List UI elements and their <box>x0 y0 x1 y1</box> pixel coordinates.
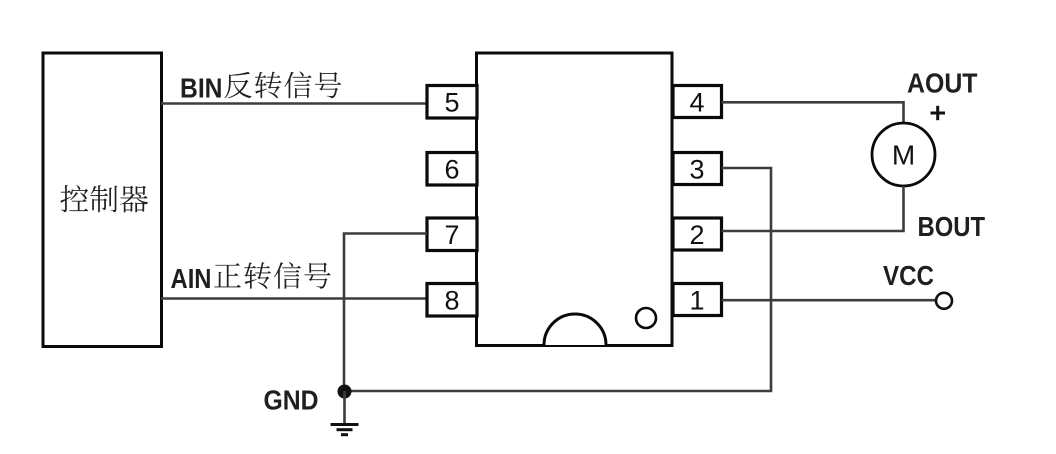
pin 4 <box>673 86 722 118</box>
svg-text:1: 1 <box>689 286 704 316</box>
pin 1 <box>673 284 722 316</box>
pin 8 <box>427 284 477 317</box>
wire pin 3 to GND rail <box>345 168 772 391</box>
svg-text:3: 3 <box>689 155 704 185</box>
pin 2 <box>673 218 722 250</box>
svg-text:7: 7 <box>444 220 459 250</box>
IC notch (orientation mark) <box>544 314 606 345</box>
svg-text:M: M <box>892 140 915 171</box>
pin 5 <box>427 86 477 119</box>
svg-text:AOUT: AOUT <box>907 68 978 99</box>
controller box <box>43 53 162 347</box>
svg-text:2: 2 <box>689 220 704 250</box>
label 控制器 <box>60 185 148 212</box>
IC U1 body <box>477 53 673 346</box>
polarity + <box>931 106 946 120</box>
pin 6 <box>427 153 477 186</box>
motor M1 <box>872 123 935 186</box>
svg-text:AIN: AIN <box>171 263 212 294</box>
pin 7 <box>427 218 477 251</box>
wire pin 4 to motor AOUT <box>722 102 904 123</box>
junction dot GND node <box>338 385 352 399</box>
svg-text:5: 5 <box>444 88 459 118</box>
label AIN正转信号 <box>171 262 331 294</box>
wire AIN: controller to pin 8 <box>161 297 427 300</box>
svg-text:BIN: BIN <box>180 73 223 104</box>
svg-text:8: 8 <box>444 286 459 316</box>
pin 3 <box>673 153 722 185</box>
wire pin 1 to VCC terminal <box>722 299 936 302</box>
wire motor BOUT to pin 2 <box>722 186 904 231</box>
svg-text:4: 4 <box>689 88 704 118</box>
svg-text:VCC: VCC <box>883 260 934 291</box>
ground <box>331 391 359 435</box>
svg-text:BOUT: BOUT <box>918 211 986 242</box>
wire BIN: controller to pin 5 <box>161 102 427 105</box>
pin 1 indicator dot <box>636 308 656 328</box>
label BIN反转信号 <box>180 71 341 103</box>
wire pin 7 to GND node <box>344 234 427 392</box>
VCC terminal <box>936 293 952 309</box>
svg-text:GND: GND <box>264 385 319 416</box>
svg-text:6: 6 <box>444 155 459 185</box>
